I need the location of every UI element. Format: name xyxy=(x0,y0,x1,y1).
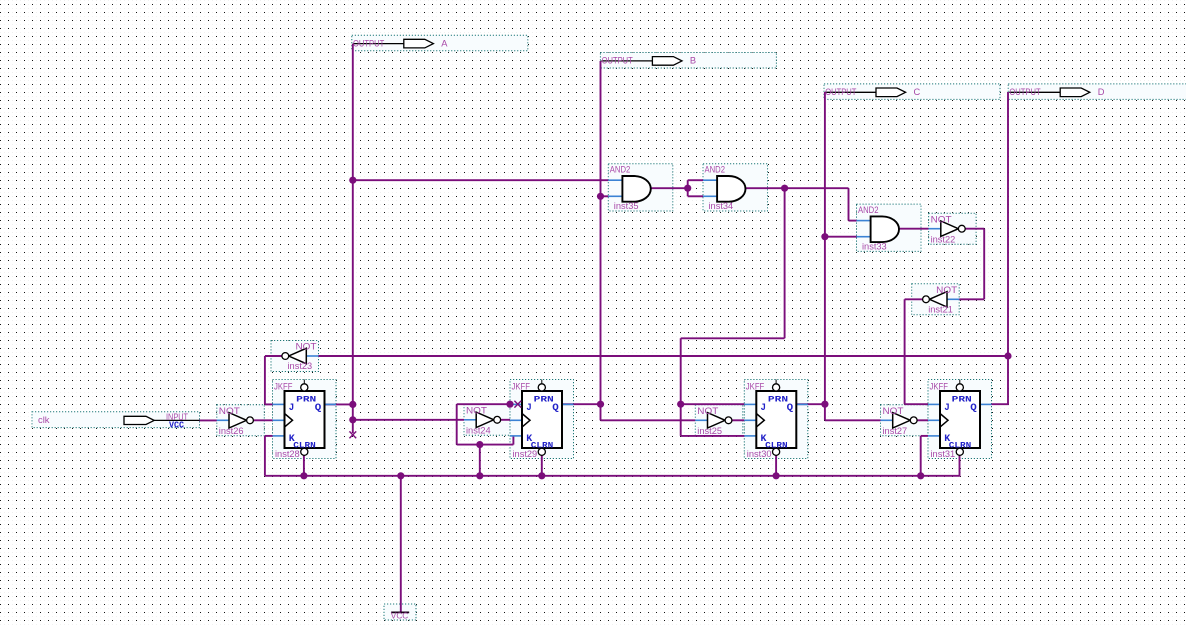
wire inst34out branch down xyxy=(784,188,786,338)
svg-text:inst27: inst27 xyxy=(883,426,908,436)
wire into J inst30 xyxy=(681,403,745,405)
wire clk pin to NOT inst26 xyxy=(200,419,217,421)
input pin clk box xyxy=(32,412,200,428)
svg-text:inst29: inst29 xyxy=(513,449,538,459)
svg-text:PRN: PRN xyxy=(768,395,788,405)
svg-text:OUTPUT: OUTPUT xyxy=(1009,87,1040,97)
wire Q inst30 to node C xyxy=(796,403,826,405)
wire B to AND2 inst35 bottom input xyxy=(601,195,609,197)
wire vcc bus xyxy=(265,475,960,477)
wire left at 338 xyxy=(681,337,785,339)
svg-text:inst31: inst31 xyxy=(931,449,956,459)
and gate inst33 box xyxy=(857,204,922,251)
vcc symbol xyxy=(391,611,409,621)
svg-text:inst21: inst21 xyxy=(928,304,953,314)
not gate inst22 xyxy=(929,214,966,244)
svg-text:JKFF: JKFF xyxy=(274,381,293,391)
svg-text:NOT: NOT xyxy=(296,342,317,352)
svg-text:inst25: inst25 xyxy=(697,426,722,436)
wire inst21 down xyxy=(904,299,906,404)
wire AND2 inst33 output xyxy=(897,228,929,230)
wire to NOT inst25 input xyxy=(601,419,696,421)
svg-text:OUTPUT: OUTPUT xyxy=(353,38,384,48)
jk flip-flop inst28 box xyxy=(273,380,337,459)
x mark dangling end xyxy=(349,431,356,438)
wire J inst29 elbow down xyxy=(456,404,458,444)
wire net D vertical xyxy=(1007,92,1009,356)
wire D down to Q inst31 xyxy=(1007,355,1009,404)
svg-text:inst35: inst35 xyxy=(614,201,639,211)
svg-text:PRN: PRN xyxy=(534,395,554,405)
svg-text:Q: Q xyxy=(787,402,794,414)
wire net A vertical xyxy=(352,44,354,405)
wire A to AND2 inst35 top input xyxy=(353,179,609,181)
output pin C xyxy=(825,87,921,97)
svg-text:inst30: inst30 xyxy=(747,449,772,459)
svg-text:J: J xyxy=(944,402,950,414)
and gate inst35 xyxy=(608,165,650,212)
not gate inst24 box xyxy=(464,404,512,435)
wire NOT inst22 output xyxy=(965,228,984,230)
svg-text:clk: clk xyxy=(38,415,50,425)
wire clockline to NOT inst24 xyxy=(353,419,464,421)
svg-text:inst26: inst26 xyxy=(219,426,244,436)
wire down to J inst28 xyxy=(264,356,266,404)
svg-text:D: D xyxy=(1098,87,1105,97)
wire AND2 inst34 output xyxy=(743,187,848,189)
svg-text:AND2: AND2 xyxy=(610,165,631,175)
wire CLRN inst29 drop xyxy=(541,455,543,476)
svg-text:J: J xyxy=(289,402,295,414)
wire AND2 inst35 output xyxy=(649,187,688,189)
not gate inst26 xyxy=(217,406,254,436)
jk flip-flop inst31 box xyxy=(928,380,992,459)
svg-text:J: J xyxy=(761,402,767,414)
wire into inst33 top input xyxy=(849,220,857,222)
svg-text:PRN: PRN xyxy=(952,395,972,405)
svg-text:inst23: inst23 xyxy=(288,361,313,371)
x mark at J inst29 xyxy=(514,401,521,408)
not gate inst23 xyxy=(282,342,319,371)
not gate inst25 xyxy=(695,406,732,436)
not gate inst21 box xyxy=(912,284,960,315)
and gate inst34 box xyxy=(703,164,768,211)
svg-text:AND2: AND2 xyxy=(705,165,726,175)
input pin clk xyxy=(38,412,206,430)
vcc symbol box xyxy=(384,604,416,620)
wire into J inst28 xyxy=(265,403,273,405)
output pin A xyxy=(353,38,449,48)
output pin B xyxy=(601,56,696,66)
wire Q inst31 to node D xyxy=(992,403,1009,405)
and gate inst35 box xyxy=(608,164,673,211)
svg-text:JKFF: JKFF xyxy=(746,381,765,391)
wire NOT inst27 out to JKFF inst31 clock xyxy=(914,419,928,421)
svg-text:NOT: NOT xyxy=(219,406,240,416)
svg-text:Q: Q xyxy=(552,402,559,414)
wire CLRN inst30 drop xyxy=(775,455,777,476)
wire NOT inst25 out to JKFF inst30 clock xyxy=(729,419,745,421)
and gate inst33 xyxy=(857,205,899,252)
wire CLRN inst28 drop xyxy=(303,455,305,476)
not gate inst25 box xyxy=(695,405,743,436)
wire net D bus xyxy=(319,355,1009,357)
svg-text:Q: Q xyxy=(315,402,322,414)
not gate inst23 box xyxy=(271,341,319,372)
jk flip-flop inst29 xyxy=(510,380,574,460)
svg-text:NOT: NOT xyxy=(931,214,952,224)
wire up to K inst29 xyxy=(512,436,514,445)
svg-text:OUTPUT: OUTPUT xyxy=(825,87,856,97)
wire K inst31 out xyxy=(921,435,928,437)
wire node B down xyxy=(600,404,602,421)
svg-text:AND2: AND2 xyxy=(858,205,879,215)
wire fork inst34 inputs xyxy=(687,180,689,196)
not gate inst27 box xyxy=(881,405,929,436)
wire to inst34 bottom input xyxy=(688,195,703,197)
wire NOT inst21 output xyxy=(905,298,926,300)
wire net B vertical xyxy=(600,61,602,404)
wire to inst34 top input xyxy=(688,179,703,181)
wire tie to vcc bus xyxy=(479,445,481,476)
wire K inst28 down to vcc bus xyxy=(264,436,266,476)
output pin C box xyxy=(824,84,1000,100)
jk flip-flop inst28 xyxy=(273,380,337,460)
not gate inst27 xyxy=(881,406,918,436)
svg-text:VCC: VCC xyxy=(169,420,185,430)
wire node A down to clockline xyxy=(352,404,354,420)
wire NOT inst26 out to JKFF inst28 clock xyxy=(250,419,272,421)
output pin B box xyxy=(600,53,776,69)
wire C to NOT inst27 input xyxy=(825,419,881,421)
svg-text:inst24: inst24 xyxy=(466,426,491,436)
wire down to J inst30 xyxy=(680,338,682,436)
svg-text:JKFF: JKFF xyxy=(930,381,949,391)
svg-text:inst34: inst34 xyxy=(709,201,734,211)
wire CLRN inst31 drop xyxy=(959,455,961,477)
wire net C vertical xyxy=(824,92,826,420)
not gate inst24 xyxy=(464,406,501,436)
svg-text:C: C xyxy=(914,87,921,97)
svg-text:J: J xyxy=(526,402,532,414)
wire C to AND2 inst33 bottom input xyxy=(825,236,857,238)
svg-text:inst33: inst33 xyxy=(862,242,887,252)
jk flip-flop inst29 box xyxy=(510,380,574,459)
wire down to AND2 inst33 top input xyxy=(848,188,850,220)
svg-text:inst22: inst22 xyxy=(931,235,956,245)
svg-text:NOT: NOT xyxy=(466,406,487,416)
wire Q inst29 to node B xyxy=(562,403,602,405)
wire into K inst30 xyxy=(681,435,745,437)
wire inst22 down xyxy=(983,229,985,300)
svg-text:VCC: VCC xyxy=(391,611,409,621)
wire Q inst28 to node A xyxy=(325,403,354,405)
svg-text:NOT: NOT xyxy=(697,406,718,416)
output pin A box xyxy=(352,35,528,51)
not gate inst26 box xyxy=(217,405,264,436)
svg-text:Q: Q xyxy=(970,402,977,414)
wire to NOT inst21 input xyxy=(959,298,984,300)
output pin D box xyxy=(1008,84,1186,100)
svg-text:A: A xyxy=(441,38,448,48)
jk flip-flop inst30 box xyxy=(744,380,808,459)
jk flip-flop inst30 xyxy=(744,380,808,460)
svg-text:NOT: NOT xyxy=(883,406,904,416)
svg-text:B: B xyxy=(690,56,696,66)
wire K inst31 down to vcc bus xyxy=(920,436,922,476)
wire into J inst31 xyxy=(905,403,928,405)
wire dangling below node xyxy=(352,420,354,433)
jk flip-flop inst31 xyxy=(928,380,992,460)
not gate inst22 box xyxy=(929,213,977,244)
wire VCC symbol drop xyxy=(400,476,402,613)
output pin D xyxy=(1009,87,1104,97)
wire JK tie bottom xyxy=(457,444,514,446)
wire NOT inst23 out left xyxy=(265,355,282,357)
svg-text:NOT: NOT xyxy=(936,285,957,295)
not gate inst21 xyxy=(923,285,960,314)
wire K inst28 out xyxy=(265,435,273,437)
wire NOT inst24 out to JKFF inst29 clock xyxy=(497,419,510,421)
svg-text:PRN: PRN xyxy=(296,395,316,405)
svg-text:OUTPUT: OUTPUT xyxy=(602,56,633,66)
svg-text:inst28: inst28 xyxy=(275,449,300,459)
svg-text:JKFF: JKFF xyxy=(512,381,531,391)
wire J inst29 horizontal xyxy=(457,403,510,405)
and gate inst34 xyxy=(703,165,745,212)
